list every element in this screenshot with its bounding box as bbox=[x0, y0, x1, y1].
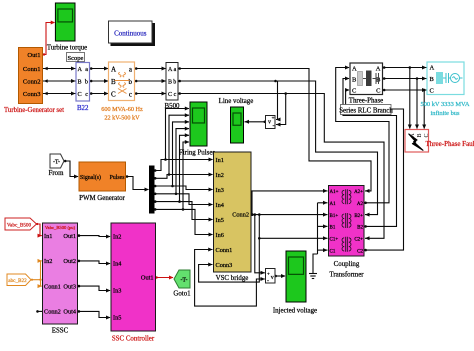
svg-text:Out1: Out1 bbox=[63, 233, 76, 240]
svg-text:C: C bbox=[352, 88, 356, 95]
svg-text:A1: A1 bbox=[330, 202, 337, 207]
svg-text:A: A bbox=[111, 66, 116, 74]
svg-text:Out4: Out4 bbox=[63, 309, 76, 316]
svg-text:Line voltage: Line voltage bbox=[219, 98, 254, 105]
svg-text:A: A bbox=[376, 66, 381, 73]
svg-text:c: c bbox=[174, 92, 177, 98]
svg-text:Transformer: Transformer bbox=[329, 272, 364, 279]
svg-text:A: A bbox=[352, 66, 357, 73]
svg-text:Out1: Out1 bbox=[27, 52, 40, 59]
svg-text:B2+: B2+ bbox=[354, 214, 363, 219]
svg-text:Turbine torque: Turbine torque bbox=[47, 45, 87, 52]
svg-text:-T-: -T- bbox=[180, 278, 187, 284]
svg-text:a: a bbox=[174, 67, 177, 73]
svg-text:B: B bbox=[430, 76, 435, 83]
svg-text:Vabc_B500 (pu): Vabc_B500 (pu) bbox=[45, 225, 76, 230]
svg-text:Three-Phase Fault: Three-Phase Fault bbox=[425, 140, 474, 148]
svg-text:In4: In4 bbox=[113, 261, 122, 268]
svg-text:In4: In4 bbox=[216, 202, 225, 209]
svg-text:C: C bbox=[78, 91, 82, 98]
svg-text:A: A bbox=[430, 65, 435, 72]
svg-text:Conn3: Conn3 bbox=[216, 262, 233, 269]
svg-text:C: C bbox=[424, 133, 430, 137]
svg-text:Scope: Scope bbox=[68, 55, 84, 62]
svg-text:C1+: C1+ bbox=[330, 238, 339, 243]
svg-text:In2: In2 bbox=[44, 258, 52, 265]
svg-text:B: B bbox=[168, 80, 172, 86]
svg-text:B500: B500 bbox=[165, 103, 180, 110]
svg-text:In6: In6 bbox=[216, 232, 224, 239]
svg-text:b: b bbox=[85, 79, 88, 86]
svg-text:C2: C2 bbox=[357, 249, 363, 254]
svg-text:A2: A2 bbox=[357, 202, 364, 207]
svg-text:b: b bbox=[173, 80, 176, 86]
svg-text:Vabc_B500: Vabc_B500 bbox=[7, 223, 32, 229]
svg-text:a: a bbox=[85, 66, 88, 73]
svg-text:A2+: A2+ bbox=[354, 190, 363, 195]
svg-text:PWM Generator: PWM Generator bbox=[79, 195, 125, 202]
svg-text:-: - bbox=[273, 124, 275, 130]
svg-text:-: - bbox=[267, 279, 269, 285]
svg-text:In1: In1 bbox=[44, 233, 52, 240]
svg-text:In3: In3 bbox=[113, 288, 121, 295]
svg-text:Firing Pulses: Firing Pulses bbox=[179, 150, 216, 157]
svg-text:-T-: -T- bbox=[53, 160, 60, 166]
svg-text:B: B bbox=[417, 133, 423, 137]
svg-text:Series RLC Branch: Series RLC Branch bbox=[339, 107, 393, 114]
svg-text:infinite bus: infinite bus bbox=[431, 110, 460, 117]
svg-text:Out1: Out1 bbox=[141, 275, 154, 282]
svg-text:Pulses: Pulses bbox=[110, 175, 126, 181]
svg-text:Conn2: Conn2 bbox=[44, 309, 61, 316]
svg-text:C: C bbox=[168, 92, 172, 98]
svg-text:c: c bbox=[85, 91, 88, 98]
svg-text:Conn2: Conn2 bbox=[232, 212, 249, 219]
svg-text:Coupling: Coupling bbox=[334, 261, 360, 268]
svg-text:In5: In5 bbox=[216, 217, 224, 224]
svg-text:Injected voltage: Injected voltage bbox=[273, 308, 317, 315]
svg-text:C: C bbox=[430, 88, 434, 95]
svg-text:Conn2: Conn2 bbox=[23, 79, 41, 86]
svg-text:In2: In2 bbox=[113, 234, 121, 241]
svg-text:B: B bbox=[352, 77, 357, 84]
svg-text:Out3: Out3 bbox=[63, 283, 76, 290]
svg-text:B22: B22 bbox=[77, 105, 89, 112]
svg-text:Three-Phase: Three-Phase bbox=[349, 98, 383, 105]
svg-text:In3: In3 bbox=[216, 187, 224, 194]
svg-text:C2+: C2+ bbox=[354, 238, 363, 243]
svg-text:C1: C1 bbox=[330, 249, 336, 254]
svg-text:Conn3: Conn3 bbox=[23, 91, 41, 98]
svg-text:B2: B2 bbox=[357, 226, 363, 231]
svg-text:Signal(s): Signal(s) bbox=[80, 174, 101, 181]
svg-text:B: B bbox=[78, 79, 82, 86]
svg-text:A: A bbox=[168, 67, 173, 73]
svg-text:B1: B1 bbox=[330, 226, 336, 231]
svg-text:abc_B22: abc_B22 bbox=[8, 278, 27, 284]
svg-text:In2: In2 bbox=[216, 172, 224, 179]
svg-text:A1+: A1+ bbox=[330, 190, 339, 195]
svg-text:VSC bridge: VSC bridge bbox=[216, 275, 249, 282]
svg-text:b: b bbox=[129, 78, 133, 86]
svg-text:500 kV 3333 MVA: 500 kV 3333 MVA bbox=[421, 101, 470, 108]
svg-text:c: c bbox=[129, 91, 132, 99]
svg-text:Goto1: Goto1 bbox=[173, 291, 191, 298]
svg-text:A: A bbox=[78, 66, 83, 73]
svg-text:From: From bbox=[49, 170, 65, 177]
svg-text:v: v bbox=[268, 120, 271, 126]
svg-text:v: v bbox=[271, 275, 274, 281]
svg-text:+: + bbox=[267, 273, 270, 278]
svg-text:Continuous: Continuous bbox=[114, 30, 147, 38]
svg-text:Conn1: Conn1 bbox=[23, 66, 41, 73]
svg-text:B: B bbox=[111, 78, 116, 86]
svg-text:In5: In5 bbox=[113, 315, 121, 322]
svg-text:Turbine-Generator set: Turbine-Generator set bbox=[4, 107, 64, 114]
svg-text:B1+: B1+ bbox=[330, 214, 339, 219]
svg-text:SSC Controller: SSC Controller bbox=[112, 336, 155, 343]
svg-text:Out2: Out2 bbox=[63, 258, 76, 265]
svg-text:ESSC: ESSC bbox=[52, 328, 69, 335]
svg-text:C: C bbox=[111, 91, 116, 99]
svg-text:+: + bbox=[272, 117, 275, 122]
svg-text:Conn1: Conn1 bbox=[216, 247, 233, 254]
svg-text:Conn1: Conn1 bbox=[44, 283, 61, 290]
svg-text:600 MVA-60 Hz: 600 MVA-60 Hz bbox=[101, 106, 143, 113]
svg-text:22 kV-500 kV: 22 kV-500 kV bbox=[104, 115, 140, 122]
svg-text:C: C bbox=[376, 88, 380, 95]
svg-text:In1: In1 bbox=[216, 157, 224, 164]
